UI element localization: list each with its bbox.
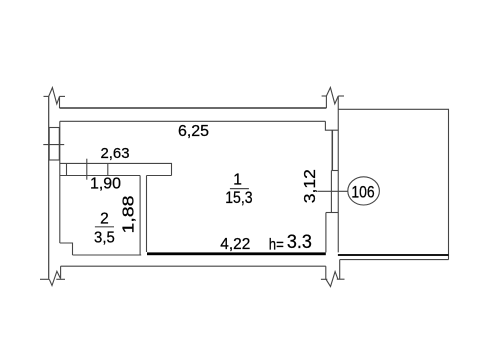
svg-text:106: 106 [351, 183, 374, 202]
wall: bottom outer left stub [60, 266, 62, 278]
doorway tick left on band [66, 163, 68, 175]
wall: left outer line [48, 96, 50, 279]
room 2 fraction bar [95, 226, 114, 228]
svg-text:6,25: 6,25 [178, 123, 209, 140]
wall: corridor bottom thick line [338, 254, 449, 256]
break symbol top-left [44, 88, 66, 108]
wall: bottom outer right stub [325, 266, 327, 279]
svg-text:h=: h= [269, 236, 284, 253]
wall: top inner line [60, 120, 326, 122]
wall: bottom outer line [61, 265, 326, 267]
svg-text:2: 2 [100, 210, 109, 227]
wall: partition room2/room1 left line [139, 176, 141, 256]
svg-text:4,22: 4,22 [220, 236, 250, 253]
window W1 mid line [43, 144, 64, 146]
wall: neighbour vertical line (right, shared) [337, 96, 339, 252]
doorway tick right on band [107, 163, 109, 175]
corridor bottom thin line [340, 259, 449, 261]
svg-text:3,12: 3,12 [302, 169, 319, 203]
svg-text:1,90: 1,90 [90, 176, 121, 193]
corridor room (right box) outline [338, 109, 448, 259]
wall: room 2 bottom line [73, 254, 142, 256]
svg-text:3,5: 3,5 [94, 229, 115, 246]
wall: partition room2/room1 right line [146, 176, 148, 253]
svg-text:3.3: 3.3 [287, 232, 312, 253]
wall: notch in room 2 bottom-left [60, 243, 73, 255]
wall: pier between window and door (right wall) [331, 170, 338, 172]
doorway D1 top jamb [326, 212, 338, 214]
break symbol bottom-left [40, 271, 65, 285]
svg-text:1: 1 [233, 171, 242, 188]
svg-text:1,88: 1,88 [121, 195, 138, 233]
leader line to room number circle [318, 190, 348, 192]
wall: top outer line [60, 107, 327, 109]
svg-text:2,63: 2,63 [101, 145, 130, 162]
wall: left inner line [59, 121, 61, 243]
break symbol top-right [322, 88, 344, 109]
svg-text:15,3: 15,3 [225, 188, 252, 207]
window W2 (right wall) inner glazing line [331, 130, 333, 170]
wall: partition band above room 2 (outline) [60, 163, 172, 175]
room number circle [348, 177, 380, 205]
doorway mid line on band [86, 159, 88, 180]
doorway D1 left jamb line [325, 213, 327, 253]
room 1 fraction bar [230, 188, 249, 190]
wall: room 1 bottom thick line [147, 252, 326, 255]
window W1 (left wall) [49, 128, 59, 161]
break symbol bottom-right [321, 260, 345, 287]
wall: room1 top-right inner corner [325, 121, 338, 130]
